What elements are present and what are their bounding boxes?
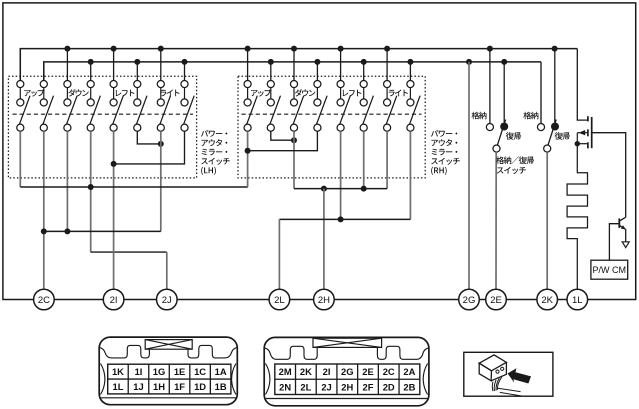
- retract contact switch1: [486, 124, 493, 131]
- wire riser to bus: [136, 62, 138, 81]
- wire LH col3 down to net line D: [66, 131, 68, 231]
- svg-text:2K: 2K: [300, 366, 312, 377]
- label power outer mirror switch RH line 3: [432, 149, 458, 156]
- switch blade: [247, 96, 258, 125]
- svg-text:P/W CM: P/W CM: [593, 265, 627, 275]
- MOSFET Q1 gate bar: [591, 117, 593, 148]
- wire riser to bus: [316, 62, 318, 81]
- MOSFET Q1 body arrow (points left): [577, 132, 588, 134]
- label power outer mirror switch LH line 5: [201, 167, 216, 175]
- svg-text:2J: 2J: [162, 295, 172, 306]
- wire riser to bus: [293, 49, 295, 81]
- P/W CM module box: [591, 260, 628, 279]
- return contact switch2 (closed, filled): [551, 123, 559, 131]
- switch1 blade: [497, 120, 505, 146]
- wire LH col1 down to net line C: [19, 131, 21, 187]
- transistor Q2 collector: [620, 217, 626, 221]
- label power outer mirror switch RH line 5: [431, 167, 447, 175]
- switch blade: [363, 96, 374, 125]
- connector icon wires: [491, 382, 494, 392]
- svg-text:2G: 2G: [463, 295, 476, 306]
- connector icon cable lines: [498, 388, 521, 391]
- svg-text:2D: 2D: [383, 381, 395, 392]
- switch blade: [136, 96, 147, 125]
- junction on top bus x=489.9: [487, 46, 493, 52]
- wire down to terminal 2L: [278, 219, 280, 289]
- switch blade: [160, 96, 171, 125]
- switch contact circles: [244, 81, 251, 88]
- wire RH col5 down to net line B: [340, 131, 342, 219]
- switch contact circles: [181, 81, 188, 88]
- label retract 1: [472, 112, 487, 120]
- label left LH: [116, 90, 135, 97]
- junction on top bus x=340.6: [338, 46, 344, 52]
- terminal 2J: [157, 289, 178, 310]
- junction on top bus x=247.6: [245, 46, 251, 52]
- wire LH col8 jog to col5: [114, 131, 185, 164]
- MOSFET Q1 body-source tie: [576, 133, 578, 144]
- switch blade: [184, 96, 195, 125]
- svg-text:2I: 2I: [110, 295, 118, 306]
- terminal 2I: [103, 289, 124, 310]
- junction on second bus x=363.7: [361, 59, 367, 65]
- switch blade: [410, 96, 421, 125]
- svg-text:2I: 2I: [323, 366, 331, 377]
- label right RH: [389, 90, 408, 97]
- wire LH col6 jog to col7: [137, 131, 161, 144]
- RH switch block dotted box: [238, 76, 425, 178]
- svg-text:1G: 1G: [153, 366, 166, 377]
- junction on second bus x=137.3: [134, 59, 140, 65]
- junction on top bus x=387.1: [384, 46, 390, 52]
- wire switch2 common down to terminal 2K: [546, 152, 548, 289]
- terminal 2L: [269, 289, 290, 310]
- wire riser to bus: [43, 62, 45, 81]
- return contact switch1 (closed, filled): [500, 123, 508, 131]
- terminal 2E: [486, 289, 507, 310]
- label retract/return switch line1: [496, 156, 534, 164]
- wire riser to bus: [247, 49, 249, 81]
- label retract 2: [523, 112, 538, 120]
- wire riser to bus: [270, 62, 272, 81]
- label down LH: [68, 89, 88, 96]
- switch contact circles: [87, 81, 94, 88]
- second bus wire (net M-): [44, 62, 541, 81]
- label right LH: [160, 90, 179, 97]
- label retract/return switch line2: [497, 167, 526, 174]
- switch blade: [293, 96, 304, 125]
- svg-text:1E: 1E: [174, 366, 185, 377]
- junction on top bus x=67.4: [64, 46, 70, 52]
- connector icon pin holes: [496, 370, 499, 373]
- transistor Q2 base bar: [618, 219, 620, 228]
- label return 1: [506, 132, 521, 140]
- switch contact circles: [384, 81, 391, 88]
- wire RH col3 down to net line A: [293, 131, 295, 188]
- svg-text:1H: 1H: [153, 381, 165, 392]
- LH switch block dotted box: [8, 76, 196, 178]
- label power outer mirror switch RH line 2: [432, 139, 458, 146]
- wire riser to bus: [363, 62, 365, 81]
- label left RH: [343, 90, 362, 97]
- label power outer mirror switch LH line 3: [202, 149, 228, 156]
- svg-text:2J: 2J: [321, 381, 331, 392]
- label power outer mirror switch LH line 2: [202, 139, 228, 146]
- label power outer mirror switch RH line 1: [431, 130, 457, 137]
- wire riser to bus: [160, 49, 162, 81]
- switch1 common contact: [493, 145, 500, 152]
- terminal 2G: [459, 289, 480, 310]
- transistor Q2 emitter with arrow: [620, 226, 626, 230]
- switch blade: [386, 96, 397, 125]
- connector block 1 (pins 1A-1L): [99, 337, 237, 405]
- net line D (2C net: col2 col3 col7): [44, 230, 161, 232]
- svg-text:2H: 2H: [318, 295, 330, 306]
- MOSFET Q1 drain lead: [577, 143, 588, 145]
- wire RH col8 down then left to net line B: [409, 131, 411, 219]
- MOSFET Q1 channel segments: [587, 116, 589, 121]
- svg-text:2M: 2M: [279, 366, 292, 377]
- wire riser to bus: [19, 49, 21, 81]
- svg-text:2N: 2N: [279, 381, 291, 392]
- return contact riser switch1: [503, 62, 505, 123]
- junction on second bus x=469.0: [466, 59, 472, 65]
- wire LH col4 down then right to terminal 2J: [90, 131, 92, 252]
- wire riser to bus: [66, 49, 68, 81]
- label up LH: [24, 89, 44, 96]
- retract contact switch2: [537, 124, 544, 131]
- wire RH col6 down to net line A: [363, 131, 365, 188]
- junction on second bus x=410.4: [407, 59, 413, 65]
- wire RH col7 down to net line A: [386, 131, 388, 188]
- wire riser to bus: [113, 49, 115, 81]
- switch blade: [43, 96, 54, 125]
- label power outer mirror switch LH line 1: [201, 130, 227, 137]
- terminal 2K: [537, 289, 558, 310]
- switch contact circles: [360, 81, 367, 88]
- junction on top bus x=294.0: [291, 46, 297, 52]
- label power outer mirror switch LH line 4: [201, 158, 230, 165]
- switch2 common contact: [544, 145, 551, 152]
- MOSFET Q1 source lead from top bus: [577, 49, 588, 121]
- wire riser to bus: [184, 62, 186, 81]
- MOSFET Q1 gate lead to Q2 collector: [592, 133, 626, 218]
- svg-text:1L: 1L: [572, 295, 583, 306]
- svg-text:1B: 1B: [215, 381, 227, 392]
- switch contact circles: [157, 81, 164, 88]
- wire riser to bus: [90, 62, 92, 81]
- junction on second bus x=317.4: [314, 59, 320, 65]
- RH mechanical gang dashed line: [242, 113, 422, 115]
- wire riser to bus: [386, 49, 388, 81]
- connector icon arrow: [508, 368, 531, 383]
- wire LH col2 down to terminal 2C: [43, 131, 45, 289]
- terminal 2C: [34, 289, 55, 310]
- label down RH: [295, 89, 315, 96]
- svg-text:2C: 2C: [38, 295, 50, 306]
- svg-text:1C: 1C: [194, 366, 206, 377]
- junction on top bus x=554.6: [552, 46, 558, 52]
- wire RH col4 jog to col1: [248, 131, 318, 150]
- svg-text:2G: 2G: [341, 366, 354, 377]
- junction on second bus x=184.5: [182, 59, 188, 65]
- svg-text:1A: 1A: [215, 366, 227, 377]
- svg-text:1L: 1L: [112, 381, 123, 392]
- switch contact circles: [337, 81, 344, 88]
- wire RH col2 jog to col3: [271, 131, 294, 140]
- schematic frame: [3, 3, 636, 300]
- switch contact circles: [110, 81, 117, 88]
- terminal 2H: [314, 289, 335, 310]
- retract contact riser switch1: [489, 49, 491, 124]
- svg-text:2E: 2E: [362, 366, 373, 377]
- wire LH col7 down to net line D: [160, 131, 162, 231]
- switch blade: [340, 96, 351, 125]
- junction on top bus x=160.8: [158, 46, 164, 52]
- switch contact circles: [17, 81, 24, 88]
- label power outer mirror switch RH line 4: [431, 158, 460, 165]
- switch blade: [19, 96, 30, 125]
- thermistor meander element: [567, 144, 587, 290]
- svg-text:1J: 1J: [133, 381, 143, 392]
- switch contact circles: [407, 81, 414, 88]
- label return 2: [555, 132, 570, 140]
- wire riser to bus: [409, 62, 411, 81]
- svg-text:2A: 2A: [403, 366, 415, 377]
- svg-text:2B: 2B: [403, 381, 415, 392]
- svg-text:1D: 1D: [194, 381, 206, 392]
- svg-text:2L: 2L: [300, 381, 311, 392]
- svg-text:2K: 2K: [541, 295, 553, 306]
- switch contact circles: [40, 81, 47, 88]
- net line C (LH col1/col4 to RH col1): [20, 186, 248, 188]
- junction on second bus x=270.8: [268, 59, 274, 65]
- switch blade: [113, 96, 124, 125]
- switch blade: [317, 96, 328, 125]
- connector 3D icon cube: [479, 355, 506, 371]
- connector block 2 (pins 2A-2N): [264, 337, 429, 405]
- label up RH: [251, 89, 271, 96]
- wire LH col5 down to terminal 2I: [113, 131, 115, 289]
- connector view icon box: [464, 352, 553, 396]
- junction on second bus x=90.7: [88, 59, 94, 65]
- svg-text:1K: 1K: [112, 366, 124, 377]
- switch contact circles: [64, 81, 71, 88]
- junction on top bus x=113.6: [111, 46, 117, 52]
- transistor Q2 base lead to P/W CM: [609, 224, 619, 261]
- svg-text:2E: 2E: [490, 295, 502, 306]
- switch blade: [67, 96, 78, 125]
- wire down to terminal 2H: [323, 189, 325, 290]
- wire RH col1 down to net line C: [247, 131, 249, 187]
- switch blade: [90, 96, 101, 125]
- wire riser to bus: [340, 49, 342, 81]
- switch contact circles: [267, 81, 274, 88]
- svg-text:1I: 1I: [135, 366, 143, 377]
- svg-text:2H: 2H: [341, 381, 353, 392]
- switch contact circles: [134, 81, 141, 88]
- switch blade: [270, 96, 281, 125]
- switch contact circles: [290, 81, 297, 88]
- switch2 blade: [548, 120, 556, 146]
- wire riser to terminal 2G from second bus: [468, 62, 470, 289]
- LH mechanical gang dashed line: [13, 113, 194, 115]
- svg-text:2F: 2F: [363, 381, 374, 392]
- terminal 1L: [567, 289, 588, 310]
- retract contact riser switch2 (from second bus end): [540, 62, 542, 124]
- junction on second bus x=504.2: [501, 59, 507, 65]
- switch contact circles: [314, 81, 321, 88]
- wire switch1 common down to terminal 2E: [495, 152, 497, 289]
- svg-text:2C: 2C: [383, 366, 395, 377]
- net line B (2L net: RH col5 col8): [279, 218, 410, 220]
- top bus wire (net M+): [20, 49, 577, 81]
- net line A (2H net: RH col3 col6 col7): [294, 188, 387, 190]
- svg-text:2L: 2L: [274, 295, 285, 306]
- svg-text:1F: 1F: [174, 381, 185, 392]
- open arrow pointing down to P/W CM: [622, 242, 629, 248]
- return contact riser switch2: [554, 49, 556, 123]
